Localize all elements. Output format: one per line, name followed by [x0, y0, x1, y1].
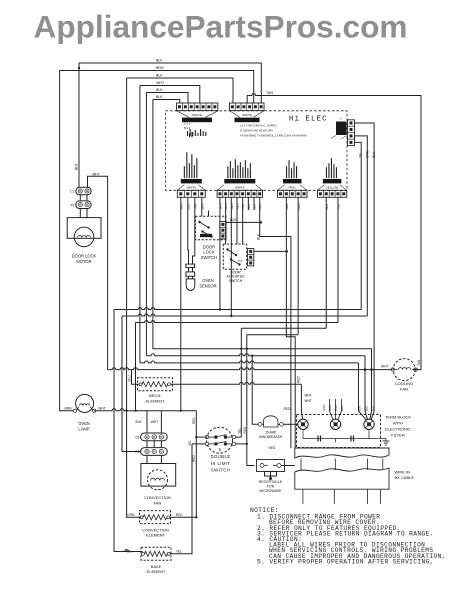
convection element resistor — [140, 516, 143, 519]
wire BLK from door lock switch to P14 pin8 — [226, 221, 261, 223]
wire P14 pin3 to bus row 2 — [230, 197, 232, 316]
wire breaker to term block terminal 1 — [283, 423, 297, 425]
svg-text:7: 7 — [340, 117, 342, 121]
svg-text:BLK: BLK — [357, 405, 361, 411]
broil element dashed box — [138, 378, 173, 391]
convection fan — [141, 464, 176, 487]
door lock switch connector — [220, 222, 226, 239]
svg-text:DOUBLE: DOUBLE — [211, 454, 231, 459]
svg-text:BLK: BLK — [364, 405, 368, 411]
svg-text:FILTER: FILTER — [391, 433, 405, 438]
svg-text:TAN: TAN — [417, 359, 421, 366]
wire P14 pin6 stub — [247, 197, 249, 210]
svg-text:BLK: BLK — [253, 204, 257, 210]
svg-text:BLK: BLK — [156, 59, 163, 63]
svg-text:4.8 KW BAKE 3.4 KW BROIL 1.2 K: 4.8 KW BAKE 3.4 KW BROIL 1.2 KW CONV 8.4… — [240, 134, 307, 138]
wire convection element to RED vertical — [170, 516, 197, 518]
receptacle for microwave — [257, 460, 285, 472]
svg-text:WHITE: WHITE — [235, 186, 245, 190]
wire cover box upper band — [295, 448, 389, 458]
svg-text:L1 1-2 P8 CONN A.C. SUPPLY: L1 1-2 P8 CONN A.C. SUPPLY — [240, 124, 277, 128]
svg-text:RED: RED — [297, 202, 301, 209]
svg-text:ORN: ORN — [127, 513, 135, 517]
bake element dashed box — [141, 547, 171, 560]
wire TAN to cooling fan — [247, 94, 421, 370]
svg-text:SWITCH: SWITCH — [201, 255, 217, 260]
svg-text:RED: RED — [284, 407, 292, 411]
bake element resistor — [142, 552, 145, 555]
svg-text:ELECTRONIC: ELECTRONIC — [385, 427, 411, 432]
wire lamp row to RED vertical — [94, 409, 196, 411]
terminal block terminal 2 — [330, 419, 340, 429]
bus row 7 to terminal block — [153, 100, 372, 420]
svg-text:RED: RED — [243, 426, 247, 433]
bus row 9 to terminal block — [140, 361, 359, 363]
svg-text:WHT: WHT — [381, 365, 389, 369]
wire BLK supply 3 — [127, 78, 233, 103]
bus row 1 — [114, 308, 361, 310]
wire P9 pin4 to door lock switch — [201, 197, 203, 216]
latch switch contacts — [226, 248, 228, 250]
wire door lock switch second feed — [208, 211, 210, 217]
wire P15 pin3 ORN to bus row 2 — [355, 136, 368, 316]
svg-text:LAMP: LAMP — [78, 426, 89, 431]
wires P8 to convection fan — [146, 455, 148, 463]
svg-text:FAN: FAN — [154, 500, 162, 505]
svg-text:BRN: BRN — [156, 66, 164, 70]
svg-text:H1 ELEC: H1 ELEC — [289, 116, 328, 124]
wire RED vertical lamp row to convection return — [195, 411, 197, 518]
connector P10 board bottom (RED) — [278, 190, 308, 197]
svg-text:BX CABLE: BX CABLE — [395, 475, 415, 480]
svg-text:WHT: WHT — [92, 172, 100, 176]
svg-text:YEL: YEL — [238, 428, 242, 434]
wire P9 pin3 to oven sensor — [193, 197, 195, 264]
svg-text:BLK: BLK — [372, 151, 376, 158]
connector P9 board bottom far-left (WHITE) — [177, 190, 205, 197]
wire P9 pin1 long vertical to lamp row — [180, 197, 182, 410]
svg-text:BLK: BLK — [136, 420, 143, 424]
svg-text:RED: RED — [192, 417, 196, 424]
latch switch connector — [248, 249, 254, 266]
svg-text:AppliancePartsPros.com: AppliancePartsPros.com — [34, 9, 408, 45]
hi-limit contacts row 1 — [205, 435, 208, 438]
svg-text:WHITE: WHITE — [192, 113, 202, 117]
oven sensor — [186, 264, 195, 268]
wire P14 pin8 to latch junction and down — [260, 197, 291, 448]
svg-text:WHT: WHT — [322, 404, 326, 411]
connector P12 fanout and label WHITE — [230, 111, 265, 117]
wire P14 pin4 to latch switch — [236, 197, 238, 244]
svg-text:MINI-BREAKER: MINI-BREAKER — [259, 435, 283, 439]
connector P2 — [76, 201, 91, 209]
wires inside wire cover — [300, 459, 302, 471]
filter capacitors inside terminal block — [303, 430, 369, 439]
svg-text:DOOR: DOOR — [203, 244, 215, 249]
svg-text:RECEPTACLE: RECEPTACLE — [259, 480, 283, 484]
control board H1 ELEC dashed outline — [166, 111, 348, 191]
wire broil return to terminal block — [171, 382, 302, 384]
door lock switch contacts — [198, 221, 200, 223]
svg-text:WHT: WHT — [305, 394, 312, 398]
svg-text:BLK: BLK — [340, 405, 344, 411]
wire latch switch to RED vertical — [254, 250, 287, 252]
double hi-limit switch dashed circle — [207, 427, 233, 453]
wire P14 pin2 to latch switch — [225, 197, 227, 244]
bus row 10 fan row — [108, 368, 393, 370]
wire stubs below wire cover — [302, 489, 304, 504]
svg-text:DOOR LOCK: DOOR LOCK — [72, 254, 97, 259]
terminal block terminal 1 — [298, 419, 308, 429]
short leads into terminal 2 — [330, 399, 334, 420]
svg-text:WHT: WHT — [334, 404, 338, 411]
wire P14 pin5 to latch switch — [242, 197, 244, 244]
wire WHT from C2 to fan bus row — [88, 176, 108, 369]
svg-text:YEL: YEL — [176, 549, 182, 553]
svg-text:WIRE IN: WIRE IN — [395, 470, 411, 475]
wire BLK supply 5 — [146, 93, 188, 104]
svg-text:YEL: YEL — [337, 203, 341, 209]
svg-text:OVEN: OVEN — [78, 421, 90, 426]
svg-text:B-1 3: B-1 3 — [184, 126, 191, 130]
svg-text:WHT: WHT — [151, 420, 159, 424]
wire C2 to P2 — [79, 195, 81, 201]
svg-text:TERM BLOCK: TERM BLOCK — [385, 415, 411, 420]
svg-text:BLK: BLK — [257, 233, 261, 240]
svg-text:BRN: BRN — [328, 405, 332, 411]
svg-text:MOTOR: MOTOR — [76, 259, 91, 264]
svg-text:YEL: YEL — [188, 440, 192, 446]
svg-text:RED: RED — [192, 455, 196, 462]
svg-text:WHT: WHT — [98, 406, 106, 410]
svg-text:SWITCH: SWITCH — [229, 279, 243, 283]
terminal block terminal 3 — [364, 419, 374, 429]
svg-text:BRN: BRN — [65, 406, 73, 410]
svg-text:BLK: BLK — [156, 74, 163, 78]
svg-text:P8: P8 — [135, 450, 139, 454]
wire BLK supply 1 — [79, 63, 261, 103]
svg-text:SWITCH: SWITCH — [211, 467, 230, 472]
wire BRN supply 2 — [60, 71, 254, 104]
wire P14 pin1 to bus row 1 — [219, 197, 221, 309]
bus row 3 — [136, 321, 338, 323]
svg-text:YEL: YEL — [359, 152, 363, 158]
wire bus row 8 tap to breaker — [252, 356, 258, 425]
wire YEL to hi-limit row2 — [192, 443, 205, 445]
svg-text:WHT: WHT — [305, 399, 312, 403]
wire drops to C8 — [146, 411, 148, 433]
wire cover box lower band — [295, 468, 389, 489]
svg-text:P-R: P-R — [238, 259, 243, 263]
svg-text:RED: RED — [268, 446, 276, 450]
bus row 5 to receptacle — [247, 334, 298, 336]
wire YEL P11 pin4 to bus row 3 — [337, 197, 339, 322]
wire RED P10 pin2 down with jog to wire cover — [286, 197, 295, 448]
svg-text:WITH: WITH — [393, 421, 403, 426]
svg-text:FOR: FOR — [267, 484, 275, 488]
svg-text:MICROWAVE: MICROWAVE — [259, 489, 282, 493]
wire RED to hi-limit row1 — [196, 436, 205, 438]
wire P9 pin2 to oven sensor — [187, 197, 190, 264]
bus row 4 to hi-limit — [241, 327, 326, 329]
connector P12 top of board — [230, 103, 265, 111]
svg-text:SENSOR: SENSOR — [199, 284, 216, 289]
svg-text:OVEN: OVEN — [202, 278, 214, 283]
wire P15 pin1 BLK down to terminal block — [355, 123, 375, 420]
hop on bake wire — [125, 550, 129, 552]
wire WHT supply 4 — [140, 86, 200, 104]
wire P15 pin4 YEL to bus row 1 — [355, 142, 362, 309]
wire RED P10 pin4 to bus row 5 — [297, 197, 299, 334]
svg-text:TAN: TAN — [266, 91, 273, 95]
wires C8 to P8 — [146, 441, 148, 448]
svg-text:WHT: WHT — [156, 81, 165, 85]
connector P14 board bottom left (WHITE) — [217, 190, 262, 197]
svg-text:ELEMENT: ELEMENT — [146, 533, 165, 538]
svg-text:C2: C2 — [70, 190, 74, 194]
svg-text:WHITE: WHITE — [186, 186, 196, 190]
svg-text:C-1 5: C-1 5 — [184, 122, 191, 126]
wire BLK supply 6 — [153, 100, 180, 104]
bus row 2 — [122, 314, 367, 316]
svg-text:HI LIMIT: HI LIMIT — [211, 461, 231, 466]
svg-text:RED: RED — [176, 513, 184, 517]
hi-limit contacts row 2 — [205, 442, 208, 445]
connector P11 board bottom (YELLOW) — [318, 190, 347, 197]
door lock motor — [67, 218, 101, 239]
bus row 8 to terminal block — [146, 354, 365, 356]
svg-text:BLK: BLK — [156, 95, 163, 99]
svg-text:RED: RED — [289, 186, 296, 190]
15 amp mini-breaker — [258, 422, 262, 426]
svg-text:BLK: BLK — [156, 88, 163, 92]
connector P8 lower — [141, 448, 168, 456]
wire BLU P11 pin2 to bus row 4 — [325, 197, 327, 328]
wire BLK vertical to C2 — [78, 68, 80, 187]
wire P14 pin7 stub — [253, 197, 255, 210]
wire BRN vertical to oven lamp — [60, 71, 74, 411]
ground symbol — [336, 439, 387, 443]
wire BLU drop to broil element — [132, 370, 139, 385]
svg-text:RED: RED — [297, 376, 301, 383]
wire hi-limit row2 right to receptacle drop — [236, 443, 247, 445]
connector P13 fanout and label WHITE — [177, 111, 219, 117]
svg-text:BLK: BLK — [371, 405, 375, 411]
svg-text:N 120/240 VAC 60 HZ 1PH: N 120/240 VAC 60 HZ 1PH — [240, 129, 273, 133]
svg-text:5. VERIFY PROPER OPERATION AFT: 5. VERIFY PROPER OPERATION AFTER SERVICI… — [257, 558, 434, 565]
wire hi-limit row1 right to bus drop — [236, 436, 242, 438]
wire P2 to door lock motor — [79, 209, 81, 218]
wire BLK vertical from supply 3 to convection element — [127, 78, 141, 517]
door lock switch dashed box — [195, 216, 226, 240]
svg-text:ELEMENT: ELEMENT — [147, 569, 166, 574]
broil element resistor — [139, 383, 142, 386]
terminal block dashed box — [297, 415, 381, 448]
svg-text:ELEMENT: ELEMENT — [146, 398, 165, 403]
wire receptacle right to wire cover — [281, 465, 295, 467]
svg-text:ORN: ORN — [365, 150, 369, 158]
svg-text:WHITE: WHITE — [242, 113, 252, 117]
svg-text:BLK: BLK — [75, 163, 79, 170]
latch actuated switch dashed box — [223, 244, 246, 269]
connector C8 — [141, 433, 168, 441]
svg-text:C8: C8 — [135, 436, 139, 440]
connector C2 — [76, 187, 91, 195]
connector P15 right edge of board — [348, 120, 355, 146]
connector P13 top of board — [177, 103, 218, 111]
svg-text:FAN: FAN — [400, 386, 408, 391]
cooling fan — [393, 359, 415, 381]
svg-text:LOCK: LOCK — [203, 250, 214, 255]
svg-text:YELLOW: YELLOW — [326, 186, 339, 190]
svg-text:P2: P2 — [71, 203, 75, 207]
svg-text:BLU: BLU — [127, 375, 131, 382]
convection element dashed box — [140, 511, 171, 524]
wire bake element to YEL vertical — [170, 444, 192, 554]
